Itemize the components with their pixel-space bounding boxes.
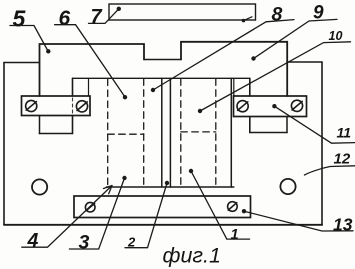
plunger right dashed — [181, 79, 216, 187]
svg-text:11: 11 — [337, 125, 352, 141]
inner block right solid edges — [169, 78, 171, 187]
label 10 — [198, 29, 351, 113]
svg-text:фиг.1: фиг.1 — [163, 244, 221, 268]
bridge between blocks — [144, 59, 181, 61]
plunger left dashed — [108, 79, 144, 187]
svg-text:10: 10 — [329, 29, 343, 43]
svg-text:3: 3 — [79, 231, 90, 253]
inner assembly bottom line — [107, 186, 234, 188]
screw — [291, 100, 302, 111]
wire stub above box — [233, 78, 235, 96]
wire stub through box dashed — [72, 98, 74, 114]
core right edge — [249, 78, 251, 132]
label 3 — [69, 176, 126, 254]
wire stub above box — [88, 78, 90, 96]
screw — [237, 101, 248, 112]
label 13 — [242, 209, 353, 235]
svg-text:12: 12 — [334, 151, 351, 168]
inner block left solid edge — [161, 78, 163, 187]
core left edge — [72, 78, 74, 133]
label 4 with arrow — [22, 186, 112, 252]
core right step bottom — [250, 132, 287, 134]
core left step bottom — [39, 133, 72, 135]
screw — [76, 101, 87, 112]
core top line — [73, 77, 250, 79]
svg-text:7: 7 — [91, 6, 103, 28]
strip 7 (top thin rectangle) — [109, 4, 256, 20]
corner tick in strip — [242, 17, 252, 23]
label 5 — [10, 6, 51, 54]
label 6 — [55, 7, 128, 100]
label 11 — [272, 104, 355, 143]
label 12 — [305, 151, 355, 176]
screw — [26, 100, 37, 111]
label 9 — [251, 3, 337, 61]
label 7 — [89, 6, 122, 28]
terminal box right — [234, 96, 307, 117]
terminal box left — [22, 96, 91, 116]
svg-text:5: 5 — [13, 6, 27, 32]
bottom bar 13 — [74, 196, 251, 218]
hole left — [32, 179, 47, 194]
svg-text:6: 6 — [59, 7, 71, 30]
base plate 12 — [4, 62, 322, 225]
block 5 (left upper block) — [40, 44, 145, 134]
svg-text:1: 1 — [231, 227, 239, 243]
svg-text:4: 4 — [27, 229, 39, 251]
label 2 — [125, 181, 169, 250]
svg-text:8: 8 — [272, 3, 283, 25]
label 8 — [151, 3, 294, 92]
block 9 (right upper block) — [181, 42, 287, 133]
screw — [228, 202, 238, 212]
label 1 — [189, 169, 250, 243]
hole right — [280, 179, 295, 194]
screw — [85, 202, 95, 212]
